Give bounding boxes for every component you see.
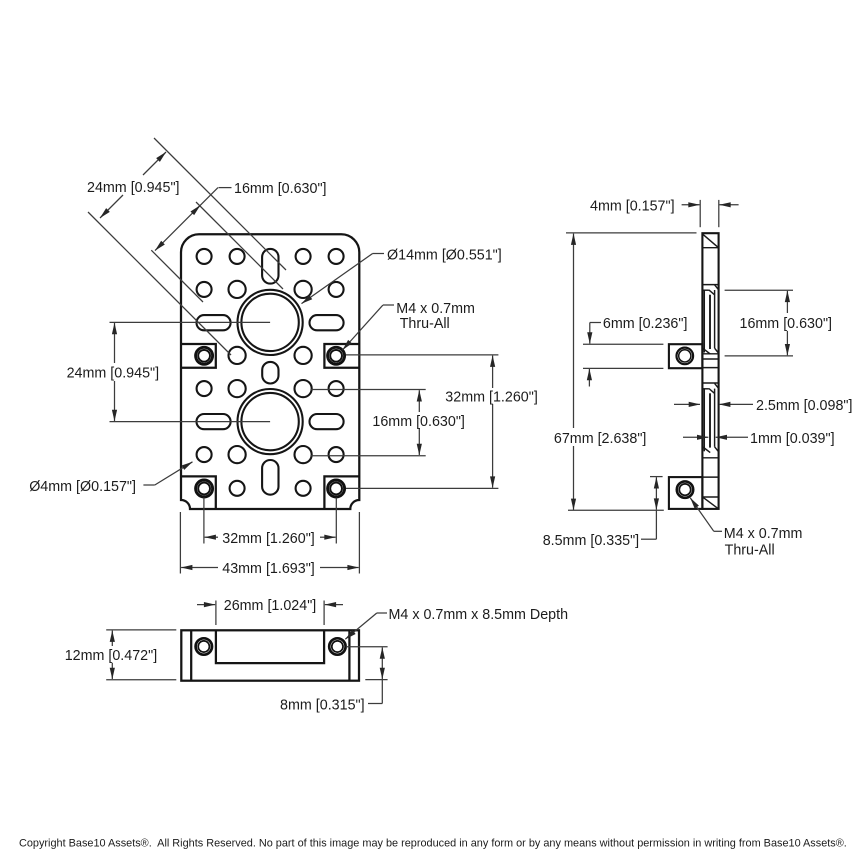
bore 2 thru circle: [241, 393, 298, 450]
svg-text:M4 x 0.7mm: M4 x 0.7mm: [396, 301, 475, 317]
2.5mm arrows: [674, 403, 700, 405]
4mm extension lines: [699, 200, 701, 227]
side view web outline: [702, 233, 718, 509]
tab lower: [669, 477, 703, 509]
boss tab upper-right: [324, 344, 359, 368]
svg-text:24mm [0.945"]: 24mm [0.945"]: [87, 180, 180, 196]
row3 right slot: [310, 315, 344, 330]
diag extension line E2 to row4 hole: [88, 212, 231, 355]
side tab hole lower: [677, 481, 693, 497]
svg-text:1mm [0.039"]: 1mm [0.039"]: [750, 431, 835, 447]
8.5mm extension line: [650, 476, 663, 478]
67mm extension lines: [566, 232, 697, 234]
svg-text:26mm [1.024"]: 26mm [1.024"]: [224, 598, 317, 614]
6mm extension lines: [583, 343, 663, 345]
svg-text:8.5mm [0.335"]: 8.5mm [0.335"]: [543, 533, 639, 549]
M4 depth leader: [377, 612, 387, 614]
row6 left slot: [197, 414, 231, 429]
svg-text:12mm [0.472"]: 12mm [0.472"]: [65, 648, 158, 664]
12mm extension lines: [106, 629, 176, 631]
left rail inner edge: [190, 630, 192, 680]
plate outline with rounded top corners and bottom corner relief notches: [181, 234, 359, 509]
24mm diagonal dimension line lower segment: [100, 195, 123, 218]
diag extension line E0 through slot bottom: [196, 202, 283, 289]
32mm vertical right: extension lines: [346, 354, 498, 356]
band 2 entry chamfers: [703, 388, 709, 390]
row1 holes: [197, 249, 212, 264]
svg-text:Thru-All: Thru-All: [400, 316, 450, 332]
67mm dimension line: [573, 234, 575, 428]
16mm diagonal mid arrow: [192, 205, 200, 213]
M4 tapped hole bottom-left: [196, 638, 212, 654]
center oval: [262, 362, 278, 384]
row8 holes: [230, 481, 245, 496]
M4 hole lower-left: [196, 480, 213, 497]
row5 holes: [197, 381, 212, 396]
M4 hole upper-right: [328, 347, 345, 364]
recess band 2 verticals: [703, 389, 705, 451]
row4 holes: [229, 347, 246, 364]
16mm side dimension line: [786, 291, 788, 313]
svg-text:Ø14mm [Ø0.551"]: Ø14mm [Ø0.551"]: [387, 248, 502, 264]
bore 1 thru circle: [241, 294, 298, 351]
svg-text:67mm [2.638"]: 67mm [2.638"]: [554, 431, 647, 447]
43mm: extension lines: [179, 512, 181, 574]
svg-text:4mm [0.157"]: 4mm [0.157"]: [590, 198, 675, 214]
row2 holes: [197, 282, 212, 297]
32mm bottom dimension line: [205, 536, 218, 538]
svg-text:Copyright Base10 Assets®. All: Copyright Base10 Assets®. All Rights Res…: [19, 838, 847, 850]
8mm dimension line: [381, 647, 383, 679]
svg-text:M4 x 0.7mm: M4 x 0.7mm: [724, 526, 803, 542]
4mm arrows: [682, 204, 700, 206]
svg-text:24mm [0.945"]: 24mm [0.945"]: [67, 366, 160, 382]
M4 threaded holes front view: [196, 347, 345, 497]
boss tab upper-left: [181, 344, 216, 368]
svg-text:2.5mm [0.098"]: 2.5mm [0.098"]: [756, 398, 852, 414]
svg-text:16mm [0.630"]: 16mm [0.630"]: [372, 414, 465, 430]
16mm side extension lines: [725, 289, 793, 291]
diag extension line E4: [151, 250, 203, 302]
M4 hole lower-right: [328, 480, 345, 497]
dia4 leader: [143, 484, 154, 486]
26mm arrows outside: [197, 604, 215, 606]
24mm vertical dimension line: [114, 323, 116, 363]
24mm vertical: extension lines at bore centers: [110, 321, 271, 323]
svg-text:6mm [0.236"]: 6mm [0.236"]: [603, 316, 688, 332]
bottom corner diagonal: [703, 497, 718, 508]
8mm text bracket: [381, 680, 383, 704]
M4 thru leader bottom: [714, 530, 722, 532]
12mm dimension line: [111, 631, 113, 646]
band 1 entry chamfers: [703, 289, 709, 291]
row3 left slot: [197, 315, 231, 330]
svg-text:Ø4mm [Ø0.157"]: Ø4mm [Ø0.157"]: [29, 479, 136, 495]
svg-text:16mm [0.630"]: 16mm [0.630"]: [234, 181, 327, 197]
dia14 leader: [373, 253, 384, 255]
svg-text:32mm [1.260"]: 32mm [1.260"]: [445, 390, 538, 406]
front view dimension texts: [29, 180, 538, 577]
6mm leader bracket and arrows: [590, 322, 601, 324]
boss tab lower-right: [324, 476, 359, 509]
16mm vertical right: extension lines: [310, 389, 425, 391]
16mm diagonal dimension line: [155, 188, 218, 251]
tab upper: [669, 344, 703, 368]
svg-text:Thru-All: Thru-All: [725, 542, 775, 558]
43mm dimension line: [181, 567, 218, 569]
8mm extension lines: [346, 646, 388, 648]
26mm extension lines: [215, 601, 217, 626]
svg-text:32mm [1.260"]: 32mm [1.260"]: [222, 531, 315, 547]
svg-text:43mm [1.693"]: 43mm [1.693"]: [222, 561, 315, 577]
row6 right slot: [310, 414, 344, 429]
bottom vertical slot: [262, 460, 278, 495]
bottom view outline: [181, 630, 359, 680]
32mm vertical dimension line: [492, 356, 494, 388]
U channel cutout: [216, 630, 324, 663]
svg-text:M4 x 0.7mm x 8.5mm Depth: M4 x 0.7mm x 8.5mm Depth: [389, 607, 569, 623]
web horizontal edges: [702, 247, 718, 249]
1mm arrows: [683, 436, 708, 438]
boss tab lower-left: [181, 476, 216, 509]
svg-text:16mm [0.630"]: 16mm [0.630"]: [740, 316, 833, 332]
M4 top leader: [383, 304, 394, 306]
diag extension line E1 through top slot: [154, 138, 286, 270]
24mm diagonal dimension line upper segment: [143, 152, 166, 175]
8.5mm text bracket: [655, 510, 657, 539]
side tab hole upper: [677, 348, 694, 365]
M4 hole upper-left: [196, 347, 213, 364]
bore 1 recess circle: [238, 290, 303, 355]
M4 tapped hole bottom-right: [329, 638, 345, 654]
8.5mm dimension line: [655, 477, 657, 510]
32mm bottom: extension lines: [203, 498, 205, 544]
16mm vertical dimension line: [418, 390, 420, 412]
bore 2 recess circle: [238, 389, 303, 454]
svg-text:8mm [0.315"]: 8mm [0.315"]: [280, 697, 365, 713]
top vertical slot: [262, 249, 278, 284]
16mm label dash: [219, 187, 232, 189]
top corner diagonal: [703, 234, 718, 247]
recess band 1 verticals: [703, 290, 705, 352]
row7 holes: [197, 447, 212, 462]
right rail inner edge: [348, 630, 350, 680]
